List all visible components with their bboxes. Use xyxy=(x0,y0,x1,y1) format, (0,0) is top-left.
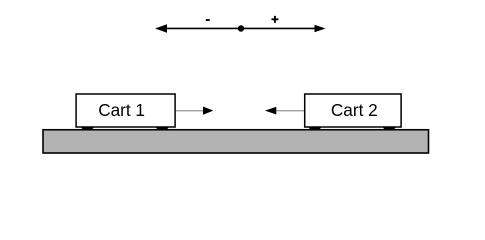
svg-text:Cart 2: Cart 2 xyxy=(331,100,378,120)
svg-text:Cart 1: Cart 1 xyxy=(98,100,145,120)
